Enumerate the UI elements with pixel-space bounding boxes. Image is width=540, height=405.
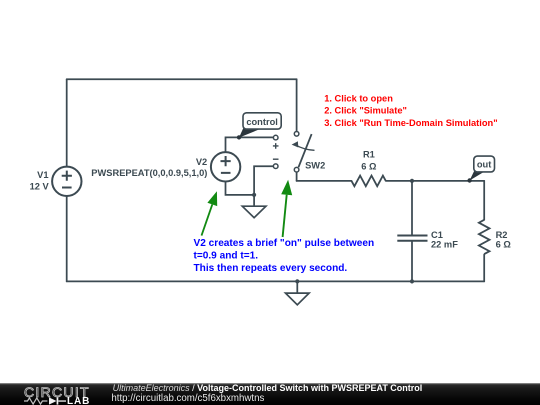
svg-text:V2: V2 bbox=[196, 157, 207, 167]
annotation blue text bbox=[194, 238, 375, 274]
resistor R1 bbox=[352, 176, 386, 187]
annotation red text bbox=[324, 94, 497, 128]
junction V2 ground node bbox=[252, 193, 256, 197]
svg-text:control: control bbox=[246, 117, 278, 127]
junction control node bbox=[237, 135, 241, 139]
svg-text:PWSREPEAT(0,0,0.9,5,1,0): PWSREPEAT(0,0,0.9,5,1,0) bbox=[91, 168, 207, 178]
wire left upper bbox=[66, 79, 68, 166]
wire ground2 stem bbox=[296, 281, 298, 293]
green arrow to switch wire bbox=[281, 180, 292, 237]
footer bar bbox=[0, 383, 540, 405]
wire switch to R1 bbox=[297, 180, 352, 182]
ground bottom bbox=[286, 293, 310, 305]
wire right down to R2 bbox=[483, 181, 485, 220]
svg-text:R1: R1 bbox=[363, 150, 375, 160]
svg-text:6 Ω: 6 Ω bbox=[496, 240, 512, 250]
svg-text:LAB: LAB bbox=[67, 396, 90, 405]
junction R1 C1 node bbox=[410, 179, 414, 183]
wire switch bottom lead bbox=[296, 172, 298, 181]
svg-text:12 V: 12 V bbox=[30, 182, 50, 192]
wire C1 bottom lead bbox=[411, 241, 413, 281]
svg-text:SW2: SW2 bbox=[305, 161, 325, 171]
logo diode bbox=[49, 397, 66, 404]
svg-text:C1: C1 bbox=[431, 230, 443, 240]
svg-text:out: out bbox=[477, 160, 491, 170]
junction ground bottom node bbox=[295, 279, 299, 283]
svg-text:3. Click "Run Time-Domain Simu: 3. Click "Run Time-Domain Simulation" bbox=[324, 118, 497, 128]
wire V2 top lead bbox=[226, 137, 274, 152]
svg-text:2. Click "Simulate": 2. Click "Simulate" bbox=[324, 106, 407, 116]
wire C1 top lead bbox=[411, 181, 413, 235]
node flag out bbox=[467, 156, 494, 183]
svg-text:t=0.9 and t=1.: t=0.9 and t=1. bbox=[194, 251, 259, 262]
node flag control bbox=[237, 113, 281, 140]
svg-text:6 Ω: 6 Ω bbox=[361, 161, 377, 171]
svg-text:V1: V1 bbox=[37, 170, 48, 180]
svg-text:V2 creates a brief "on" pulse: V2 creates a brief "on" pulse between bbox=[194, 238, 375, 249]
svg-text:1. Click to open: 1. Click to open bbox=[324, 94, 393, 104]
resistor R2 bbox=[479, 220, 490, 254]
wire R1 to out corner bbox=[386, 180, 484, 182]
wire V2 bottom lead bbox=[226, 181, 255, 195]
green arrow to V2 wire bbox=[202, 191, 218, 235]
logo squiggle resistor bbox=[24, 398, 47, 404]
svg-text:UltimateElectronics / Voltage-: UltimateElectronics / Voltage-Controlled… bbox=[113, 383, 423, 393]
capacitor C1 bbox=[397, 236, 427, 241]
wire minus terminal to ground bbox=[254, 166, 273, 206]
switch control minus terminal bbox=[273, 159, 279, 168]
wire R2 bottom lead bbox=[483, 255, 485, 282]
voltage source V2 bbox=[211, 152, 240, 181]
ground under V2 bbox=[242, 206, 266, 218]
wire switch top lead bbox=[296, 79, 298, 131]
svg-text:http://circuitlab.com/c5f6xbxm: http://circuitlab.com/c5f6xbxmhwtns bbox=[111, 393, 264, 404]
wire bottom bbox=[67, 280, 485, 282]
svg-text:This then repeats every second: This then repeats every second. bbox=[194, 263, 348, 274]
switch control plus terminal bbox=[273, 135, 279, 148]
junction C1 bottom node bbox=[410, 279, 414, 283]
svg-text:R2: R2 bbox=[496, 230, 508, 240]
wire top bbox=[67, 78, 297, 80]
svg-text:22 mF: 22 mF bbox=[431, 240, 458, 250]
voltage source V1 bbox=[52, 167, 81, 196]
wire left lower bbox=[66, 195, 68, 281]
switch SW2 bbox=[292, 132, 315, 173]
